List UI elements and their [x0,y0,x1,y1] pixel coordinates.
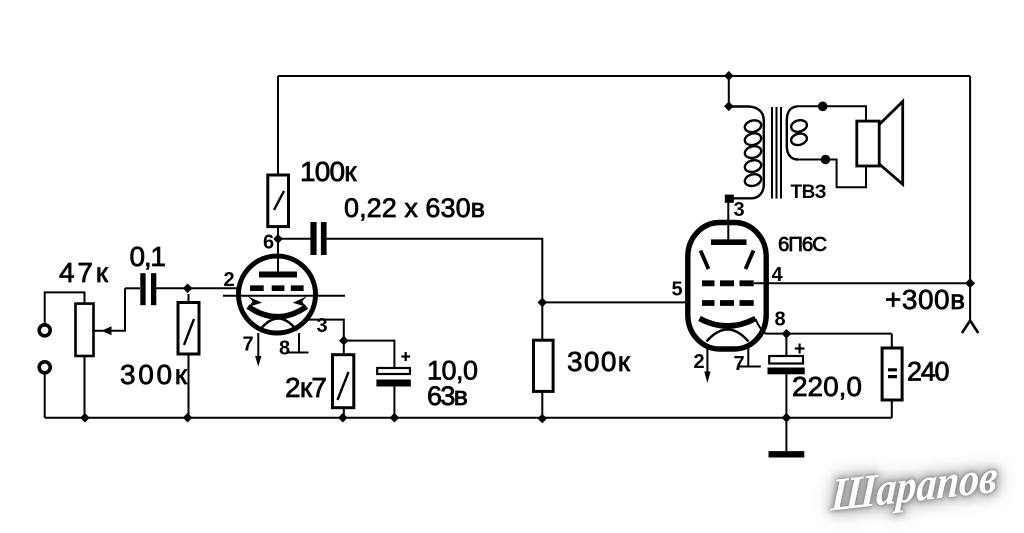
svg-text:6П6С: 6П6С [778,233,827,256]
node rail R4 junction [538,414,548,424]
svg-text:100к: 100к [300,156,357,187]
wire wiper to C1 [125,287,140,289]
potentiometer 47k body [76,304,94,356]
wire R4 bottom lead [541,391,543,417]
svg-text:300к: 300к [567,346,631,377]
svg-text:5: 5 [672,279,683,301]
node secondary bottom junction [821,155,831,165]
ground lead [785,418,787,452]
wire right side drop to +300v node [969,76,971,283]
svg-text:8: 8 [775,309,786,331]
node grid1 junction [183,284,193,294]
wire coupling cap to grid2 node [327,239,543,340]
resistor R1 100k [268,175,289,227]
potentiometer wiper arrow [94,288,125,335]
svg-text:2к7: 2к7 [285,372,327,403]
pin 7 lead with bar (V2) [739,347,760,367]
svg-text:47к: 47к [59,257,109,288]
pin 2 lead with arrow [704,347,710,383]
wire screen to +300v [754,282,970,284]
svg-text:0,22 x 630в: 0,22 x 630в [344,193,485,223]
wire input bottom to ground rail [44,374,46,418]
wire V2 anode lead to transformer [727,198,729,242]
tube V1 cathode [248,307,307,317]
node 6 junction [273,234,283,244]
node transformer primary bottom [725,195,734,203]
tube V1 beam plate line [223,295,345,297]
svg-text:ТВЗ: ТВЗ [791,182,827,203]
ground symbol [769,451,805,457]
tube V2 beam plates [701,251,754,270]
wire cathode1 lead [304,320,344,341]
svg-text:7: 7 [734,353,745,375]
tube V2 control grid dashes [702,300,754,306]
svg-text:2: 2 [224,269,235,291]
node secondary top junction [818,102,828,112]
tube V2 cathode [700,319,756,327]
node primary top junction [724,102,734,112]
svg-text:8: 8 [279,338,290,360]
watermark Sharapov [828,448,1008,533]
capacitor C4 220,0 electrolytic [768,334,805,418]
wire bottom ground rail [45,417,892,419]
capacitor C1 0,1 [140,273,156,305]
wire grid2 node to tube V2 grid [542,301,690,303]
resistor R5 240 cathode [882,334,902,418]
resistor R4 300k grid leak V2 [534,340,554,391]
speaker [857,102,903,185]
capacitor C2 0,22x630v [310,222,326,255]
wire 100k top lead [277,76,279,175]
svg-text:+300в: +300в [885,284,965,315]
svg-text:6: 6 [263,232,274,254]
node rail pot junction [80,413,90,423]
node cathode2 junction [782,329,792,339]
wire cathode2 lead [756,319,892,334]
wire C1 to grid1 [156,287,242,289]
resistor R2 300k input [178,294,199,418]
transformer T1 primary winding [729,107,764,199]
tube V2 envelope [688,223,766,350]
node grid2 junction [538,298,548,308]
node cathode1 junction [339,336,349,346]
+300v terminal chevron [962,321,978,334]
wire top supply rail [278,75,970,77]
tube V2 screen grid dashes [702,280,754,286]
wire to bypass cap C3 [344,341,395,368]
pin 7 lead with arrow [255,333,261,367]
wire pot bottom lead [84,356,86,418]
svg-text:240: 240 [907,357,950,387]
tube V1 beam arrows [248,296,307,306]
node rail R3 junction [338,413,348,423]
tube V2 anode [711,239,747,245]
wire node6 to coupling cap [278,238,310,240]
tube V1 grid dashes [250,285,304,291]
tube V1 envelope [239,256,316,333]
wire rail to primary top [728,76,730,106]
node rail C3 junction [390,413,400,423]
svg-text:300к: 300к [120,359,188,390]
svg-text:7: 7 [243,334,254,356]
resistor R3 2k7 [333,341,354,418]
svg-text:220,0: 220,0 [792,371,862,402]
wire 100k bottom lead to anode node [277,227,279,274]
wire secondary bottom to speaker [798,160,866,188]
node +300v junction [965,278,975,288]
svg-text:63в: 63в [427,381,468,411]
svg-text:3: 3 [317,315,328,337]
svg-text:0,1: 0,1 [130,241,167,272]
node rail R2 junction [183,413,193,423]
tube V1 anode [259,272,297,278]
transformer T1 core [772,107,781,199]
capacitor C3 10,0 63v electrolytic [376,352,410,418]
pin 8 lead with bar [289,333,309,353]
tube V1 heater [260,319,298,331]
input jack top terminal [39,325,50,336]
tube V2 heater [707,330,749,342]
wire secondary top to speaker [797,106,866,121]
node top rail transformer junction [724,71,734,81]
input jack bottom terminal [39,362,50,373]
svg-text:3: 3 [734,199,745,221]
wire input top to pot top [45,292,85,323]
transformer T1 secondary winding [787,106,808,159]
svg-text:2: 2 [694,351,705,373]
node rail ground junction [782,413,792,423]
+300v terminal tail [969,283,971,321]
